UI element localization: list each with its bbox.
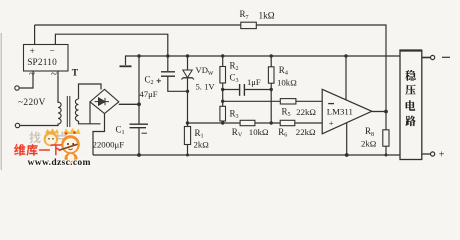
scan edge artifact [0, 33, 2, 170]
node C2 top [166, 54, 169, 57]
wire LM311 output [372, 111, 386, 113]
block voltage regulator box [400, 51, 422, 160]
module SP2110 box [24, 45, 69, 72]
bridge rectifier diamond [90, 89, 119, 113]
svg-text:T: T [72, 69, 79, 79]
wire reference to R5 [223, 100, 281, 102]
wire bridge left vertex lead [89, 102, 91, 124]
node output junction [384, 110, 388, 114]
svg-text:C3: C3 [230, 73, 239, 85]
capacitor C2 lead top [167, 56, 169, 71]
zener VDw lead top [187, 56, 189, 70]
watermark red text xia [51, 144, 62, 155]
node divider to R5 [221, 100, 224, 103]
terminal ac input bottom [15, 123, 19, 127]
wire R5 to comparator noninverting [296, 100, 322, 102]
svg-text:−: − [50, 47, 55, 57]
svg-text:1μF: 1μF [247, 77, 261, 87]
node C3 left junction [221, 88, 224, 91]
watermark mascot small head [44, 129, 59, 147]
transformer core [66, 96, 68, 127]
resistor Rv 10k [240, 120, 255, 125]
watermark red text wei [14, 144, 25, 156]
capacitor C1 lead bottom [138, 128, 140, 155]
svg-text:www.dzsc.com: www.dzsc.com [28, 157, 91, 168]
op-amp U1 LM311 triangle [322, 89, 372, 134]
wire SP2110 left ac pin [20, 71, 34, 88]
capacitor C3 lead right [244, 89, 271, 91]
svg-text:22000μF: 22000μF [93, 140, 125, 150]
resistor R5 22k [280, 99, 296, 104]
watermark gray text zhao [30, 132, 41, 144]
label inverting mark [328, 103, 334, 105]
wire rail to bridge node [138, 56, 140, 104]
transformer primary winding [58, 102, 61, 124]
wire SP2110 plus pin to top rail [34, 25, 36, 45]
wire regulator to plus terminal [422, 153, 431, 155]
resistor R8 2k [385, 112, 387, 156]
svg-text:22kΩ: 22kΩ [296, 127, 316, 137]
node R4 top [270, 54, 273, 57]
svg-text:LM311: LM311 [327, 107, 353, 117]
node R8 bottom [385, 154, 388, 157]
bridge diode symbol [95, 98, 110, 105]
label dian [406, 100, 416, 111]
capacitor C2 plates [161, 71, 175, 73]
svg-text:1kΩ: 1kΩ [259, 11, 275, 21]
svg-text:+: + [30, 47, 35, 57]
wire secondary bottom to bridge left vertex [79, 121, 101, 124]
resistor R6 22k [280, 120, 295, 125]
svg-text:SP2110: SP2110 [27, 58, 57, 68]
terminal ac input top [15, 86, 19, 90]
resistor R7 1k [241, 22, 256, 28]
resistor R2 [222, 56, 224, 90]
svg-text:VDW: VDW [196, 65, 214, 77]
capacitor C2 lead bottom to zener node [168, 76, 188, 91]
capacitor C1 lead top [138, 104, 140, 124]
label wen [406, 70, 416, 81]
wire feedback top rail [35, 25, 386, 112]
wire ac bottom terminal to transformer primary [20, 124, 58, 126]
svg-text:~220V: ~220V [18, 98, 46, 108]
node reference divider [186, 121, 189, 124]
svg-text:~: ~ [29, 68, 35, 80]
svg-text:2kΩ: 2kΩ [361, 138, 377, 148]
terminal output plus [431, 152, 435, 156]
svg-text:R3: R3 [230, 108, 239, 120]
node bridge output [137, 102, 141, 106]
svg-text:22kΩ: 22kΩ [296, 107, 316, 117]
wire Rv to R6 [255, 122, 280, 124]
resistor R3 [222, 106, 224, 123]
svg-text:RV: RV [232, 127, 243, 139]
wire reference node to Rv [188, 122, 241, 124]
label output minus sign [442, 56, 450, 58]
wire secondary top to bridge [79, 84, 102, 99]
node zener top [186, 54, 189, 57]
svg-text:~: ~ [51, 68, 57, 80]
wire LM311 ground pin [346, 123, 348, 156]
resistor R4 10k [270, 56, 272, 123]
svg-text:R4: R4 [279, 65, 288, 77]
terminal output minus [431, 55, 435, 59]
node R3 bottom [221, 121, 224, 124]
node C3 R4 [270, 88, 273, 91]
wire regulator to minus terminal [422, 57, 431, 59]
wire LM311 vplus from rail [345, 56, 347, 100]
svg-text:10kΩ: 10kΩ [277, 78, 297, 88]
svg-text:+: + [439, 150, 445, 161]
svg-text:R1: R1 [195, 128, 204, 140]
svg-text:10kΩ: 10kΩ [249, 127, 269, 137]
wire bridge dc minus to bottom bus [93, 114, 105, 156]
watermark red text ku [27, 144, 38, 156]
node R1 bottom [186, 154, 189, 157]
svg-text:R6: R6 [278, 127, 287, 139]
wire SP2110 minus pin rail [55, 34, 167, 56]
node C1 bottom [137, 153, 141, 157]
wire bottom bus rail [93, 154, 400, 156]
zener VDw symbol [183, 70, 192, 78]
svg-text:R2: R2 [230, 60, 239, 72]
node rail left end [137, 54, 140, 57]
node zener cap junction [186, 90, 189, 93]
wire positive rail bus [139, 55, 400, 57]
resistor R1 2k [187, 123, 189, 155]
transformer secondary winding [75, 99, 78, 121]
wire bridge dc plus [119, 103, 139, 105]
svg-text:+: + [329, 118, 334, 128]
zener lead bottom [187, 78, 189, 123]
svg-text:C2: C2 [145, 75, 154, 87]
node R2 top [221, 54, 224, 57]
wire R2 R3 junction [222, 90, 224, 107]
label ya [406, 85, 416, 95]
svg-text:5. 1V: 5. 1V [196, 81, 216, 91]
svg-text:2kΩ: 2kΩ [194, 140, 210, 150]
node LM311 ground [345, 153, 349, 157]
node rail LM311 [344, 54, 347, 57]
watermark red text yi [39, 149, 50, 151]
svg-text:C1: C1 [116, 125, 125, 137]
capacitor C3 plates [239, 84, 241, 96]
wire SP2110 right ac pin to transformer [57, 71, 59, 103]
watermark mascot large [58, 128, 82, 165]
svg-text:R5: R5 [282, 106, 291, 118]
capacitor C3 lead left [223, 89, 240, 91]
svg-text:47μF: 47μF [140, 89, 158, 99]
ground symbol at rail [126, 56, 140, 65]
wire R6 to comparator inverting [295, 122, 322, 124]
capacitor C2 polarity mark [157, 80, 162, 82]
svg-text:R7: R7 [240, 9, 249, 21]
watermark gray text pian [56, 132, 67, 144]
capacitor C1 polarity mark [142, 132, 148, 134]
svg-text:R8: R8 [365, 126, 374, 138]
label lu [406, 116, 416, 127]
node R4 bottom [270, 121, 273, 124]
capacitor C1 plates [130, 123, 149, 125]
